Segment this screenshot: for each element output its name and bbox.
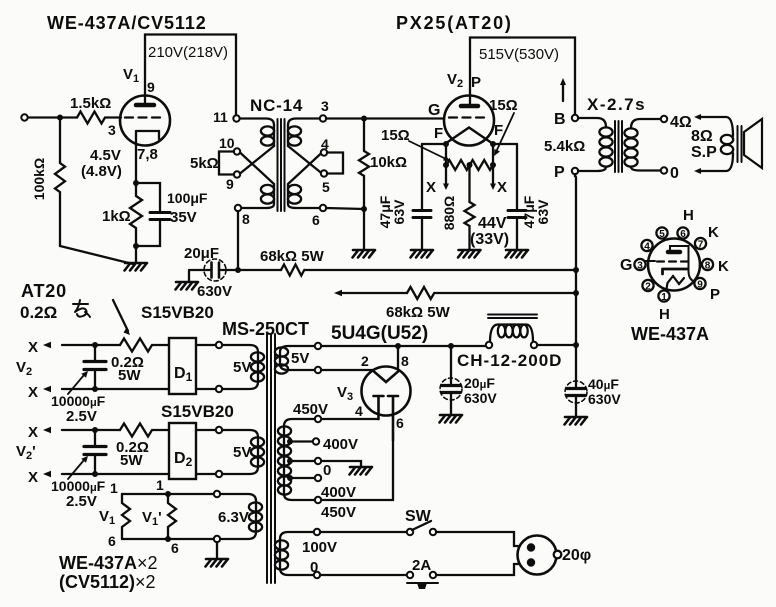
cap leads xyxy=(575,381,577,417)
node cathode junction xyxy=(133,180,139,186)
svg-text:(CV5112)×2: (CV5112)×2 xyxy=(59,572,156,592)
socket pin 2 xyxy=(642,280,653,291)
svg-text:1.5kΩ: 1.5kΩ xyxy=(70,95,111,112)
wires D2 to transformer pins xyxy=(196,430,216,474)
resistor 880 zigzag xyxy=(465,202,475,250)
svg-text:15Ω: 15Ω xyxy=(381,127,410,144)
svg-text:68kΩ 5W: 68kΩ 5W xyxy=(386,304,451,321)
socket inner grid lead and dashes xyxy=(645,260,655,262)
NC-14 secondary lower winding xyxy=(288,185,301,194)
wire filament bottom to tube pin2 xyxy=(321,369,373,371)
pin 100V top xyxy=(314,529,320,535)
socket pin 4 xyxy=(641,240,652,251)
svg-text:X-2.7s: X-2.7s xyxy=(587,95,646,114)
svg-text:8Ω: 8Ω xyxy=(691,128,713,145)
choke winding top run xyxy=(490,325,533,343)
pin D1 bottom xyxy=(216,386,222,392)
MS-250CT 5V winding (D1) xyxy=(222,345,258,352)
heater V1' element xyxy=(168,494,176,539)
svg-text:0: 0 xyxy=(310,559,318,576)
NC-14 pin 3 xyxy=(320,115,326,121)
tube V3 envelope xyxy=(362,367,411,416)
NC-14 pin 11 xyxy=(233,115,239,121)
tube V2 grid dashes xyxy=(449,116,489,118)
wire filament right rail xyxy=(493,144,517,165)
choke CH-12-200D core xyxy=(488,315,537,319)
pin D2 top xyxy=(216,427,222,433)
svg-text:1: 1 xyxy=(156,477,164,493)
node driver supply xyxy=(235,267,241,273)
svg-text:630V: 630V xyxy=(197,283,232,300)
fuse holder mark xyxy=(407,582,438,584)
tube V3 filament V xyxy=(373,371,399,382)
cap leads xyxy=(94,345,96,389)
MS-250CT 5V rectifier winding xyxy=(280,346,315,370)
HV tap 400V lower xyxy=(287,475,293,481)
wire 450V top to pin 4 xyxy=(321,418,379,420)
wire 0 tap to ground xyxy=(321,461,361,466)
svg-text:X: X xyxy=(28,469,38,486)
resistor 68k 5W lower zigzag xyxy=(407,287,434,299)
wire V1 plate up and over to NC-14 pin 11 (210V feed) xyxy=(145,35,236,116)
svg-text:CH-12-200D: CH-12-200D xyxy=(457,351,562,370)
heater bottom rail xyxy=(122,538,214,540)
svg-text:7,8: 7,8 xyxy=(137,146,158,163)
svg-text:100kΩ: 100kΩ xyxy=(31,158,47,200)
svg-text:9: 9 xyxy=(226,176,234,192)
node rheostat right end xyxy=(490,162,496,168)
HV tap 400V upper xyxy=(287,439,293,445)
speaker lead bottom arrow xyxy=(700,153,733,171)
wire to ground xyxy=(135,246,137,263)
wire switch to plug xyxy=(436,532,518,546)
tube V1 grid dashes xyxy=(125,116,165,118)
svg-text:63V: 63V xyxy=(535,199,551,225)
pin D1 top xyxy=(216,342,222,348)
wire cap right to node xyxy=(221,269,239,271)
cap plates xyxy=(567,389,585,396)
pin 450V bottom xyxy=(315,497,321,503)
svg-text:5: 5 xyxy=(659,229,665,240)
svg-text:5W: 5W xyxy=(118,367,141,384)
wire NC-14 pin 8 down to supply rail xyxy=(237,211,239,270)
svg-text:V2': V2' xyxy=(16,443,36,462)
svg-text:6: 6 xyxy=(312,212,320,228)
svg-text:630V: 630V xyxy=(464,390,497,406)
svg-text:6: 6 xyxy=(680,229,686,240)
NC-14 secondary upper lead xyxy=(288,119,320,126)
svg-text:F: F xyxy=(434,125,443,142)
node filament left xyxy=(443,141,449,147)
svg-text:X: X xyxy=(28,339,38,356)
svg-text:8: 8 xyxy=(242,211,250,227)
node cap top xyxy=(92,427,98,433)
OPT secondary lead 0 xyxy=(631,167,661,171)
svg-text:11: 11 xyxy=(213,109,228,125)
svg-text:3: 3 xyxy=(637,261,643,272)
plug side lug xyxy=(554,551,562,559)
wire pin 3 to V2 grid xyxy=(326,117,444,119)
svg-text:S.P: S.P xyxy=(691,144,717,161)
tube V3 plate left xyxy=(374,396,384,419)
OPT secondary winding xyxy=(624,128,637,137)
socket pin 7 xyxy=(695,238,706,249)
capacitor 47uF left plates xyxy=(413,211,431,218)
svg-text:6: 6 xyxy=(108,533,116,549)
terminal 4 ohm xyxy=(661,116,667,122)
svg-text:H: H xyxy=(683,207,694,224)
node cap bottom xyxy=(92,471,98,477)
wire V1 cathode down xyxy=(135,131,137,183)
node cathode bottom junction xyxy=(133,243,139,249)
arrow X right filament supply xyxy=(492,167,494,184)
node rail2 right xyxy=(573,290,579,296)
svg-text:5V: 5V xyxy=(291,350,309,367)
svg-text:2A: 2A xyxy=(412,557,431,574)
svg-text:4: 4 xyxy=(355,403,363,419)
svg-text:400V: 400V xyxy=(323,436,358,453)
svg-text:6: 6 xyxy=(396,415,404,431)
socket pin 5 xyxy=(656,227,667,238)
node pin8 riser xyxy=(395,343,401,349)
svg-text:1: 1 xyxy=(110,480,118,496)
pin 5V top xyxy=(315,343,321,349)
resistor 1.5k zigzag xyxy=(77,112,105,124)
socket inner cathode xyxy=(663,269,688,274)
svg-text:5.4kΩ: 5.4kΩ xyxy=(544,138,585,155)
wire center tap down xyxy=(468,165,470,202)
tube V2 plate xyxy=(461,104,478,109)
wire supply rail 2 with arrow xyxy=(341,292,576,294)
pin 100V bottom xyxy=(314,572,320,578)
svg-text:P: P xyxy=(554,164,565,181)
svg-text:0: 0 xyxy=(670,165,679,182)
OPT secondary lead 4ohm xyxy=(631,119,661,128)
tube V2 envelope xyxy=(444,96,494,146)
rectifier D2 box xyxy=(169,423,196,479)
ground heater pin xyxy=(216,542,218,559)
capacitor 10000uF (D1) plates xyxy=(84,362,106,370)
wire AC top rail to switch xyxy=(320,531,407,533)
svg-text:44V: 44V xyxy=(478,215,507,232)
capacitor 47uF right plates xyxy=(508,211,526,218)
svg-text:2.5V: 2.5V xyxy=(66,493,97,510)
MS-250CT 5V winding (D2) xyxy=(222,430,258,437)
wire V2 plate up and over to output transformer B (515V feed) xyxy=(470,38,575,115)
socket pin 9 xyxy=(694,278,705,289)
svg-text:8: 8 xyxy=(401,353,409,369)
wire B+ rail from 5V pin to choke xyxy=(321,345,486,347)
tube V3 plate right xyxy=(388,396,398,440)
tube socket WE-437A bottom view envelope xyxy=(648,239,700,291)
node cap top xyxy=(92,342,98,348)
svg-text:PX25(AT20): PX25(AT20) xyxy=(396,13,513,33)
svg-text:X: X xyxy=(426,179,436,196)
node heater bottom mid xyxy=(165,536,171,542)
svg-text:SW: SW xyxy=(405,508,432,525)
pin heater top xyxy=(214,491,220,497)
wire pin 8 riser xyxy=(397,346,399,369)
switch SW contacts xyxy=(407,529,413,535)
svg-text:S15VB20: S15VB20 xyxy=(141,303,214,322)
resistor 0.2 ohm 5W (D2) zigzag xyxy=(120,424,169,437)
terminal B xyxy=(572,115,578,121)
ground 20uF 630V xyxy=(440,415,463,423)
terminal P xyxy=(572,168,578,174)
svg-text:4: 4 xyxy=(644,242,650,253)
tube V1 cathode xyxy=(136,131,159,139)
tube V1 envelope xyxy=(120,96,170,146)
NC-14 primary upper lead xyxy=(240,119,274,126)
NC-14 pin 4 xyxy=(321,149,327,155)
wire B+ vertical from OPT P down xyxy=(575,174,576,381)
svg-text:35V: 35V xyxy=(170,209,197,226)
svg-text:NC-14: NC-14 xyxy=(250,96,303,115)
svg-text:0: 0 xyxy=(323,462,331,479)
resistor 100k (grid leak) xyxy=(55,118,133,265)
socket pin 8 xyxy=(702,259,713,270)
capacitor 20uF plates xyxy=(212,263,220,278)
wire cap bottom xyxy=(136,220,160,246)
svg-text:5U4G(U52): 5U4G(U52) xyxy=(331,323,428,344)
svg-text:100μF: 100μF xyxy=(167,190,208,206)
socket pin 1 xyxy=(658,290,669,301)
svg-text:AT20: AT20 xyxy=(21,281,67,301)
capacitor 100uF plates xyxy=(150,213,170,220)
svg-text:5W: 5W xyxy=(120,452,143,469)
svg-text:2.5V: 2.5V xyxy=(66,408,97,425)
tube V2 filament xyxy=(447,128,491,143)
socket inner plate lead xyxy=(670,246,694,282)
svg-text:450V: 450V xyxy=(321,504,356,521)
NC-14 pin 6 xyxy=(320,205,326,211)
terminal 0 xyxy=(661,167,667,173)
ground V1 cathode xyxy=(125,263,148,271)
node filament right xyxy=(490,141,496,147)
pin heater bottom xyxy=(214,536,220,542)
cap leads xyxy=(450,346,452,415)
arrow up B+ xyxy=(562,84,564,101)
node B+ at choke xyxy=(573,342,579,348)
arrow X out bottom (D1) xyxy=(62,388,169,390)
node 20uF branch xyxy=(448,343,454,349)
speaker cone xyxy=(744,119,762,168)
hiragana wo glyph (hand drawn) xyxy=(73,300,90,317)
wire AC bottom rail to fuse xyxy=(320,574,407,576)
leader 15 ohm left xyxy=(409,141,446,159)
pin D2 bottom xyxy=(216,471,222,477)
svg-text:20φ: 20φ xyxy=(562,547,591,564)
node input junction xyxy=(57,115,63,121)
pin 450V top xyxy=(315,416,321,422)
svg-text:V1': V1' xyxy=(142,509,162,528)
wire cathode to bypass cap xyxy=(136,183,160,212)
wire supply rail 1 xyxy=(238,269,576,271)
svg-text:G: G xyxy=(428,102,440,119)
svg-text:630V: 630V xyxy=(588,391,621,407)
svg-text:20μF: 20μF xyxy=(184,245,219,262)
switch lever xyxy=(412,521,431,530)
NC-14 primary lower winding xyxy=(261,185,274,194)
HV tap 0 center xyxy=(287,458,293,464)
socket pin 3 xyxy=(634,259,645,270)
capacitor 20uF 630V (driver supply) dashed circle xyxy=(204,259,226,281)
NC-14 primary cross wires xyxy=(240,146,274,184)
plug pin top xyxy=(527,543,535,551)
svg-text:8: 8 xyxy=(705,261,711,272)
svg-text:X: X xyxy=(28,384,38,401)
leader arrow to 0.2 ohm resistor xyxy=(113,300,128,331)
choke pin left xyxy=(486,342,492,348)
tube V1 plate xyxy=(136,103,154,108)
arrow X out bottom (D2) xyxy=(62,473,169,475)
svg-text:400V: 400V xyxy=(321,484,356,501)
node rheostat left end xyxy=(443,162,449,168)
arrow X out top (D1) xyxy=(62,344,120,346)
svg-text:7: 7 xyxy=(698,240,704,251)
OPT primary winding xyxy=(599,127,612,136)
svg-text:5V: 5V xyxy=(233,359,251,376)
svg-text:15Ω: 15Ω xyxy=(489,97,518,114)
AC plug body xyxy=(518,536,557,575)
svg-text:515V(530V): 515V(530V) xyxy=(479,46,559,63)
svg-text:6: 6 xyxy=(171,540,179,556)
NC-14 pin 8 xyxy=(235,205,241,211)
svg-text:63V: 63V xyxy=(391,199,407,225)
choke winding loops xyxy=(498,325,505,338)
svg-text:1kΩ: 1kΩ xyxy=(102,208,131,225)
MS-250CT 6.3V winding xyxy=(220,494,256,501)
svg-text:S15VB20: S15VB20 xyxy=(161,402,234,421)
svg-text:K: K xyxy=(718,258,729,275)
heater V1 element xyxy=(122,494,130,539)
socket inner plate blob xyxy=(668,250,680,255)
svg-text:9: 9 xyxy=(697,280,703,291)
node grid line junction xyxy=(361,116,367,122)
svg-text:3: 3 xyxy=(321,98,329,114)
svg-text:2: 2 xyxy=(645,282,651,293)
svg-text:4.5V: 4.5V xyxy=(90,147,121,164)
input terminal xyxy=(21,114,27,120)
svg-text:9: 9 xyxy=(147,79,155,95)
ground 880 xyxy=(458,250,481,258)
wire input to grid resistor xyxy=(28,116,77,118)
svg-text:100V: 100V xyxy=(302,539,337,556)
svg-text:5kΩ: 5kΩ xyxy=(190,155,219,172)
leader arrow to 10000uF (D2) xyxy=(68,460,84,479)
MS-250CT HV winding xyxy=(284,419,315,426)
svg-text:P: P xyxy=(710,286,720,303)
choke pin right xyxy=(531,342,537,348)
svg-text:0.2Ω: 0.2Ω xyxy=(20,303,57,322)
node heater top mid xyxy=(165,491,171,497)
svg-text:10: 10 xyxy=(219,135,235,151)
svg-text:10000μF: 10000μF xyxy=(51,393,106,409)
wire filament left rail xyxy=(422,144,446,165)
resistor 68k 5W upper zigzag xyxy=(281,265,304,276)
NC-14 pin 10 xyxy=(234,148,240,154)
svg-text:G: G xyxy=(620,257,632,274)
svg-text:B: B xyxy=(554,111,566,128)
NC-14 secondary cross wires xyxy=(288,146,322,184)
socket inner heater squiggle xyxy=(666,276,684,292)
resistor 5k bracket across pins 10-9 xyxy=(219,152,234,175)
svg-text:MS-250CT: MS-250CT xyxy=(222,319,309,339)
capacitor 20uF 630V (B+ at choke input) dashed circle xyxy=(440,378,462,400)
capacitor 40uF 630V dashed circle xyxy=(565,381,587,403)
ground left 47uF xyxy=(411,250,434,258)
svg-text:880Ω: 880Ω xyxy=(441,196,457,231)
OPT primary lead P xyxy=(578,167,606,171)
speaker frame bars xyxy=(738,126,742,162)
OPT core xyxy=(615,121,622,172)
cap leads xyxy=(94,430,96,474)
arrow X out top (D2) xyxy=(62,429,120,431)
NC-14 primary upper winding xyxy=(261,126,274,135)
plug pin bottom xyxy=(527,558,535,566)
node pin6 junction xyxy=(361,206,367,212)
svg-text:(33V): (33V) xyxy=(470,231,509,248)
NC-14 pin 5 xyxy=(321,170,327,176)
node rail1 right xyxy=(573,267,579,273)
svg-text:10000μF: 10000μF xyxy=(51,478,106,494)
fuse contacts xyxy=(407,572,413,578)
svg-text:P: P xyxy=(471,74,481,91)
OPT primary lead B xyxy=(578,118,606,127)
svg-text:F: F xyxy=(494,122,503,139)
socket pin 6 xyxy=(677,227,688,238)
svg-text:K: K xyxy=(708,224,719,241)
rectifier D1 box xyxy=(169,338,196,394)
svg-text:5: 5 xyxy=(322,179,330,195)
svg-text:1: 1 xyxy=(661,292,667,303)
wire fuse to plug xyxy=(436,564,518,575)
svg-text:WE-437A×2: WE-437A×2 xyxy=(59,553,158,573)
wire pin 6 to 10k leg xyxy=(326,208,364,209)
capacitor 10000uF (D2) plates xyxy=(84,447,106,455)
wire resistor to V1 grid xyxy=(106,116,121,118)
arrow X left filament supply xyxy=(445,167,447,184)
ground 40uF xyxy=(565,417,588,425)
leader arrow to 10000uF (D1) xyxy=(68,375,84,394)
speaker lead top arrow xyxy=(700,117,733,136)
NC-14 pin 9 xyxy=(234,171,240,177)
svg-text:6.3V: 6.3V xyxy=(218,509,249,526)
pin 5V bottom xyxy=(315,367,321,373)
svg-text:10kΩ: 10kΩ xyxy=(370,154,407,171)
wire 450V bottom to pin 6 xyxy=(321,440,393,500)
MS-250CT 100V winding xyxy=(280,532,314,539)
svg-text:5V: 5V xyxy=(233,444,251,461)
MS-250CT core xyxy=(267,334,275,583)
svg-text:4: 4 xyxy=(321,136,329,152)
wire right cap leads xyxy=(516,144,518,250)
node rheostat center tap xyxy=(467,162,473,168)
svg-text:(4.8V): (4.8V) xyxy=(81,163,122,180)
svg-text:H: H xyxy=(659,306,670,323)
svg-text:210V(218V): 210V(218V) xyxy=(148,44,228,61)
wire choke to B+ vertical xyxy=(537,344,576,346)
ground 20uF xyxy=(176,282,199,290)
resistor 10k grid leak xyxy=(359,119,369,251)
svg-text:3: 3 xyxy=(108,122,116,138)
svg-text:68kΩ 5W: 68kΩ 5W xyxy=(260,248,325,265)
cap plates xyxy=(442,386,460,393)
svg-text:WE-437A: WE-437A xyxy=(631,324,709,344)
hum balance rheostat zigzag xyxy=(447,160,493,170)
svg-text:X: X xyxy=(497,179,507,196)
heater top rail xyxy=(122,493,214,495)
